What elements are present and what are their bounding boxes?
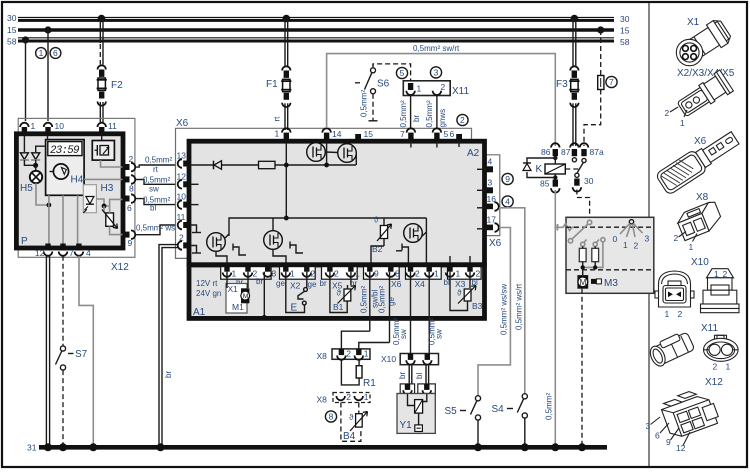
legend connector X10 side view: [701, 269, 740, 313]
svg-text:bl: bl: [444, 278, 450, 287]
svg-text:X6: X6: [176, 118, 189, 129]
svg-text:X2/X3/X4/X5: X2/X3/X4/X5: [677, 68, 735, 79]
motor M1: [226, 272, 250, 313]
legend connector X12: [646, 377, 724, 453]
dashed wire relay 30 -> M3: [577, 190, 590, 219]
svg-text:1: 1: [689, 242, 694, 252]
svg-text:14: 14: [332, 129, 342, 139]
wire lamp to pin12 wire: [36, 183, 49, 205]
connector X8: [317, 349, 371, 361]
wire X11-2 -> A2-5, 0,5mm2 gnws: [436, 95, 438, 129]
svg-text:0,5mm² ws/rt: 0,5mm² ws/rt: [515, 283, 524, 330]
node: tap 30 to F1: [283, 15, 291, 23]
svg-text:sw: sw: [399, 329, 408, 339]
svg-text:A2: A2: [467, 148, 480, 159]
svg-text:6: 6: [655, 431, 660, 441]
switch E: [286, 272, 308, 314]
X4 pin 1: [427, 265, 432, 272]
X8b pin 2: [336, 392, 351, 402]
svg-text:58: 58: [7, 37, 17, 47]
svg-text:ge: ge: [387, 297, 396, 306]
valve Y1: [397, 394, 435, 434]
M3 resistor Rb: [592, 240, 599, 262]
wire F3 -> relay 87 (double): [572, 103, 574, 146]
wire P9 -> A2 pin11, 0,5mm2 ws: [135, 225, 176, 235]
svg-text:9: 9: [666, 437, 671, 447]
svg-text:0,5mm²: 0,5mm²: [378, 286, 387, 313]
A2 pin 11 (left): [177, 212, 190, 229]
svg-text:12: 12: [35, 248, 45, 258]
M3 mech dashed line 2: [566, 269, 654, 271]
Y1 plug b: [418, 384, 436, 395]
svg-text:2: 2: [129, 154, 134, 164]
svg-text:X2: X2: [290, 281, 301, 291]
connector below F2: [99, 92, 104, 99]
svg-text:12V rt: 12V rt: [196, 279, 218, 288]
clock H4: [46, 140, 85, 196]
svg-text:0,5mm²: 0,5mm²: [143, 176, 170, 185]
svg-text:11: 11: [108, 121, 117, 131]
svg-text:H3: H3: [101, 183, 114, 194]
svg-text:F2: F2: [111, 80, 123, 91]
diode D_b: [31, 136, 47, 160]
A2 pin 4 (right): [477, 157, 493, 173]
svg-text:0,5mm²: 0,5mm²: [425, 100, 434, 127]
note circle 2: [457, 114, 468, 125]
pin 11 (top): [97, 121, 117, 135]
svg-text:85: 85: [540, 179, 550, 189]
svg-text:1: 1: [417, 84, 422, 94]
wire Q2 to rail: [355, 153, 357, 165]
X8 pin 1: [355, 349, 369, 360]
node: tap 15 dashed: [597, 26, 604, 33]
mosfet Q2: [338, 144, 357, 163]
svg-text:30: 30: [7, 13, 17, 23]
wire H4 -> pin 8: [84, 178, 122, 180]
X6 wire 8 down: [389, 272, 391, 343]
X5 pin 1: [348, 265, 353, 272]
M3 resistor Ra: [579, 240, 586, 262]
switch S7: [56, 346, 88, 370]
svg-text:1: 1: [456, 269, 461, 279]
svg-text:S5: S5: [445, 406, 458, 417]
wire pin11 down: [101, 134, 103, 141]
X10 pin a: [406, 354, 415, 365]
note circle 1: [36, 48, 47, 59]
svg-text:M: M: [243, 293, 249, 300]
socket X6a: [364, 267, 400, 280]
A2 pin 12 stub: [190, 183, 199, 185]
svg-text:4: 4: [86, 248, 91, 258]
wire 58 -> P pin 1: [25, 40, 27, 121]
A2 pin 14 (top): [322, 128, 341, 140]
svg-text:S4: S4: [492, 404, 505, 415]
note circle 7: [606, 76, 617, 87]
svg-text:2: 2: [334, 269, 339, 279]
svg-text:6: 6: [53, 48, 58, 58]
resistor R1: [341, 360, 376, 389]
pin 12 (bottom): [35, 244, 52, 259]
svg-text:A1: A1: [193, 307, 206, 318]
X5 pin 2: [327, 265, 332, 272]
connector X10: [381, 354, 439, 365]
svg-text:F3: F3: [556, 79, 568, 90]
svg-text:7: 7: [400, 129, 405, 139]
legend connector X1: [676, 17, 733, 66]
svg-text:2: 2: [346, 349, 351, 359]
pin 4 (bottom): [75, 244, 91, 259]
socket X4: [406, 267, 442, 280]
svg-text:30: 30: [620, 14, 630, 24]
svg-text:bl: bl: [415, 373, 424, 379]
svg-text:2: 2: [634, 241, 639, 251]
svg-text:11: 11: [177, 212, 186, 222]
A2 pin 15 (top): [355, 129, 373, 140]
svg-text:86: 86: [541, 147, 551, 157]
svg-text:7: 7: [609, 77, 614, 87]
pin 2 (right): [123, 154, 136, 171]
note circle 4: [502, 196, 513, 207]
A2 pin 3 (right): [477, 178, 493, 194]
svg-text:2: 2: [460, 115, 465, 125]
svg-text:0,5mm²: 0,5mm²: [545, 393, 554, 420]
thermistor B2: [371, 216, 392, 264]
svg-text:31: 31: [27, 443, 37, 453]
svg-text:2: 2: [311, 269, 316, 279]
X4 wires down: [410, 272, 412, 354]
svg-text:K: K: [536, 164, 543, 175]
fuse F3: [556, 79, 580, 92]
svg-text:B3: B3: [472, 301, 483, 311]
svg-text:R1: R1: [363, 378, 376, 389]
svg-text:ϑ: ϑ: [337, 289, 342, 298]
pin 6 (right): [123, 194, 136, 213]
svg-text:0,5mm²: 0,5mm²: [145, 156, 172, 165]
connector X6 boundary (left+top): [176, 128, 472, 258]
svg-text:23:59: 23:59: [50, 145, 80, 157]
svg-text:1: 1: [39, 48, 44, 58]
svg-text:1: 1: [364, 349, 369, 359]
legend connector X11 side: [647, 323, 719, 368]
A2 pin 13 (left): [177, 151, 190, 168]
svg-text:2: 2: [713, 362, 718, 372]
svg-text:X11: X11: [452, 86, 469, 97]
svg-text:S6: S6: [377, 79, 390, 90]
node: tap 30 to F3: [571, 15, 579, 23]
note circle 9: [502, 173, 513, 184]
svg-text:H5: H5: [20, 183, 33, 194]
svg-text:8: 8: [329, 412, 334, 422]
wire pin1 vertical: [285, 141, 287, 218]
connector X11: [403, 81, 469, 97]
wire sw/rt A2-14 to relay 86: [327, 54, 556, 146]
svg-text:3: 3: [645, 234, 650, 244]
legend connector X2/X3/X4/X5: [665, 68, 735, 128]
A2 pin 1 (top): [275, 128, 291, 140]
svg-text:24V gn: 24V gn: [196, 289, 221, 298]
svg-text:0,5mm²: 0,5mm²: [360, 90, 369, 117]
svg-text:1: 1: [680, 118, 685, 128]
wire X6-9 -> X8-2: [341, 331, 369, 349]
M3 relay arm: [568, 220, 591, 243]
X1 pin 3: [265, 265, 270, 272]
svg-text:X12: X12: [111, 262, 129, 273]
M3 terminal 3 wire: [583, 238, 605, 268]
svg-text:0,5mm²: 0,5mm²: [143, 196, 170, 205]
bus 58: [7, 37, 630, 48]
svg-text:2: 2: [678, 309, 683, 319]
socket X3: [448, 267, 482, 280]
svg-text:3: 3: [434, 67, 439, 77]
wire H3/H4 junction to pin6: [96, 199, 109, 206]
svg-text:1: 1: [290, 269, 295, 279]
svg-text:15: 15: [364, 129, 374, 139]
relay pin 87: [561, 143, 579, 157]
wire relay 85 -> bus 31: [554, 190, 556, 445]
A2 pin 17 (right): [477, 215, 499, 232]
M3 bottom rail: [581, 262, 598, 275]
diode inside A2: [214, 161, 222, 170]
svg-text:2: 2: [441, 82, 446, 92]
relay contacts: [565, 158, 593, 192]
switch S6: [355, 64, 390, 121]
note circle 3: [430, 67, 441, 78]
fuse F1: [266, 79, 291, 92]
X11 pin 2: [433, 82, 446, 95]
X10 pin b: [423, 354, 432, 365]
wire P12 -> bus31 (double): [45, 256, 47, 445]
wire P2 -> A2 pin13, 0,5mm2 rt: [135, 165, 176, 167]
X6 wire 9 down: [369, 272, 371, 332]
legend connector X6: [655, 127, 742, 195]
A2 pin 10 stub: [190, 204, 199, 206]
A2 pin 7 (top): [400, 128, 415, 140]
svg-text:58: 58: [620, 37, 630, 47]
svg-text:9: 9: [374, 269, 379, 279]
svg-text:B4: B4: [343, 431, 356, 442]
svg-text:E: E: [291, 303, 298, 314]
svg-text:1: 1: [623, 240, 628, 250]
socket X5: [322, 267, 358, 280]
dashed wire holder -> relay 87a: [584, 90, 601, 147]
svg-text:br: br: [320, 279, 327, 288]
wire pin5 stub: [436, 141, 438, 148]
svg-text:X12: X12: [705, 377, 723, 388]
svg-text:F1: F1: [266, 79, 278, 90]
svg-text:ϑ: ϑ: [374, 216, 379, 225]
A2 pin 10 (left): [177, 192, 190, 209]
X8 pin 2: [337, 349, 351, 360]
wire X11-1 -> A2-7, 0,5mm2 br: [410, 95, 412, 129]
svg-text:X6: X6: [489, 238, 502, 249]
Y1 plug a: [400, 384, 414, 395]
fuse F2: [97, 78, 124, 91]
wire display -> pin 2: [101, 160, 123, 167]
svg-text:2: 2: [346, 392, 351, 402]
connector above F3: [570, 66, 578, 70]
svg-text:rt: rt: [153, 165, 159, 174]
wire 15 -> P pin 10: [47, 30, 49, 121]
dashed wire M3 -> bus31: [581, 289, 583, 445]
wire P7 -> S7 -> bus31 (dashed): [62, 256, 64, 346]
svg-text:X10: X10: [691, 257, 709, 268]
svg-text:2: 2: [476, 269, 481, 279]
wire F1 -> A2 pin 1, label rt: [284, 103, 286, 130]
pot (dimmer): [102, 210, 118, 229]
A2 pin 5 (top): [433, 128, 449, 140]
control unit A1 (lower section): [189, 265, 485, 318]
X1 pin 1: [224, 265, 229, 272]
X2 pin 1: [283, 265, 288, 272]
svg-text:Y1: Y1: [400, 420, 413, 431]
svg-text:1: 1: [434, 269, 439, 279]
X6 pin 8: [388, 265, 393, 272]
connector below F1: [284, 93, 289, 100]
relay diode: [523, 158, 555, 178]
lamp H5: [20, 171, 42, 194]
X3 pin 1: [447, 265, 452, 272]
thermistor B3: [450, 272, 483, 311]
svg-text:X6: X6: [694, 136, 707, 147]
wire A2-16 -> S4, ws/rt: [499, 208, 525, 393]
X2 pin 2: [304, 265, 309, 272]
svg-text:ϑ: ϑ: [457, 289, 462, 298]
svg-text:4: 4: [488, 157, 493, 167]
wire X6-8 -> X8-1: [359, 343, 390, 350]
svg-text:X8: X8: [317, 351, 328, 361]
svg-text:30: 30: [584, 176, 594, 186]
switch S5: [445, 396, 483, 452]
svg-text:15: 15: [7, 25, 17, 35]
svg-text:M3: M3: [604, 278, 618, 289]
svg-text:X3: X3: [455, 279, 466, 289]
wire F2 -> P pin 11: [99, 102, 101, 122]
wire rail1: [190, 164, 356, 166]
relay pin 85: [540, 179, 560, 193]
H4 wires down: [48, 195, 50, 243]
note circle 6: [50, 48, 61, 59]
A2 pin 11 internal terminator: [190, 225, 197, 233]
pin 8 (right): [123, 175, 136, 193]
connector X12 outline: [18, 118, 135, 257]
node: tap 58 to P pin1: [22, 36, 29, 43]
wire X1 pin3 to housing: [263, 272, 265, 316]
svg-text:1: 1: [355, 269, 360, 279]
svg-text:br: br: [398, 372, 407, 379]
X4 pin 2: [408, 265, 413, 272]
note circle 8: [325, 411, 336, 422]
svg-text:7: 7: [69, 248, 74, 258]
note circle 5: [396, 67, 407, 78]
M3 mech dashed line: [566, 226, 654, 228]
svg-text:5: 5: [444, 129, 449, 139]
svg-text:0,5mm² sw/rt: 0,5mm² sw/rt: [413, 44, 460, 53]
svg-text:P: P: [21, 236, 28, 247]
blower unit M3: [566, 217, 654, 293]
svg-text:9: 9: [128, 238, 133, 248]
svg-text:X1: X1: [687, 17, 700, 28]
svg-text:3: 3: [646, 421, 651, 431]
svg-text:10: 10: [177, 192, 187, 202]
X11 pin 1: [406, 83, 421, 95]
svg-text:1: 1: [31, 121, 36, 131]
M3 supply terminal: [555, 224, 578, 231]
svg-text:3: 3: [488, 178, 493, 188]
A2 pin 16 (right): [477, 194, 499, 211]
connector below F3: [572, 93, 577, 100]
svg-text:H4: H4: [71, 175, 84, 186]
socket X1: [221, 267, 271, 280]
X1 pin 2: [245, 265, 250, 272]
X6 pin 9: [367, 265, 372, 272]
pin 9 (right): [123, 230, 136, 248]
X3 pin 2: [467, 265, 472, 272]
svg-text:6: 6: [127, 203, 132, 213]
svg-text:15: 15: [620, 26, 630, 36]
wire rail2: [229, 218, 426, 236]
connector X6 boundary (right): [486, 155, 500, 236]
dashed wire 15 -> fuse holder 7: [600, 30, 602, 76]
svg-text:4: 4: [505, 197, 510, 207]
A2 pin 2 internal terminator: [190, 246, 197, 254]
wire 30 -> F1 (double): [284, 19, 286, 67]
svg-text:12: 12: [177, 172, 187, 182]
svg-text:X11: X11: [701, 323, 718, 334]
svg-text:1: 1: [726, 362, 731, 372]
svg-text:17: 17: [487, 215, 497, 225]
svg-text:87a: 87a: [590, 147, 604, 157]
bus 30: [7, 13, 630, 24]
svg-text:13: 13: [177, 151, 187, 161]
sensor B4 (dashed): [341, 403, 368, 443]
dashed wire S6 -> X11 pin1: [373, 64, 411, 83]
svg-text:M: M: [580, 278, 587, 287]
mosfet Q3: [207, 233, 246, 263]
svg-text:bl: bl: [150, 204, 156, 213]
svg-text:sw: sw: [149, 185, 159, 194]
svg-text:1: 1: [232, 269, 237, 279]
wire P6 -> A2 pin10, 0,5mm2 bl: [135, 199, 176, 205]
pin 7 (bottom): [59, 244, 74, 259]
resistor inside A2: [259, 161, 276, 168]
svg-text:X4: X4: [415, 279, 426, 289]
pin 10 (top): [44, 121, 65, 135]
motor M3: [577, 275, 618, 289]
mosfet Q5: [396, 218, 426, 263]
connector above F1: [282, 66, 290, 70]
X8b pin 1: [354, 392, 368, 402]
M3 rotary switch: [613, 220, 650, 251]
svg-text:X1: X1: [228, 284, 239, 294]
svg-text:br: br: [256, 277, 263, 286]
wire 30 -> F3 (double): [572, 19, 574, 67]
display module: [92, 141, 114, 161]
node: tap 30 to F2: [98, 15, 106, 23]
node: tap 15 to P pin10: [44, 26, 51, 33]
svg-text:X8: X8: [317, 395, 328, 405]
mosfet Q4: [264, 218, 303, 263]
svg-text:1: 1: [364, 392, 369, 402]
svg-text:2: 2: [665, 108, 670, 118]
svg-text:br: br: [164, 371, 173, 378]
svg-text:12: 12: [676, 443, 686, 453]
svg-text:rt: rt: [273, 116, 282, 122]
relay pin 87a: [580, 143, 604, 157]
H3 LED: [83, 183, 113, 213]
svg-text:8: 8: [129, 184, 134, 194]
svg-text:S7: S7: [75, 349, 88, 360]
svg-text:M1: M1: [232, 302, 244, 312]
